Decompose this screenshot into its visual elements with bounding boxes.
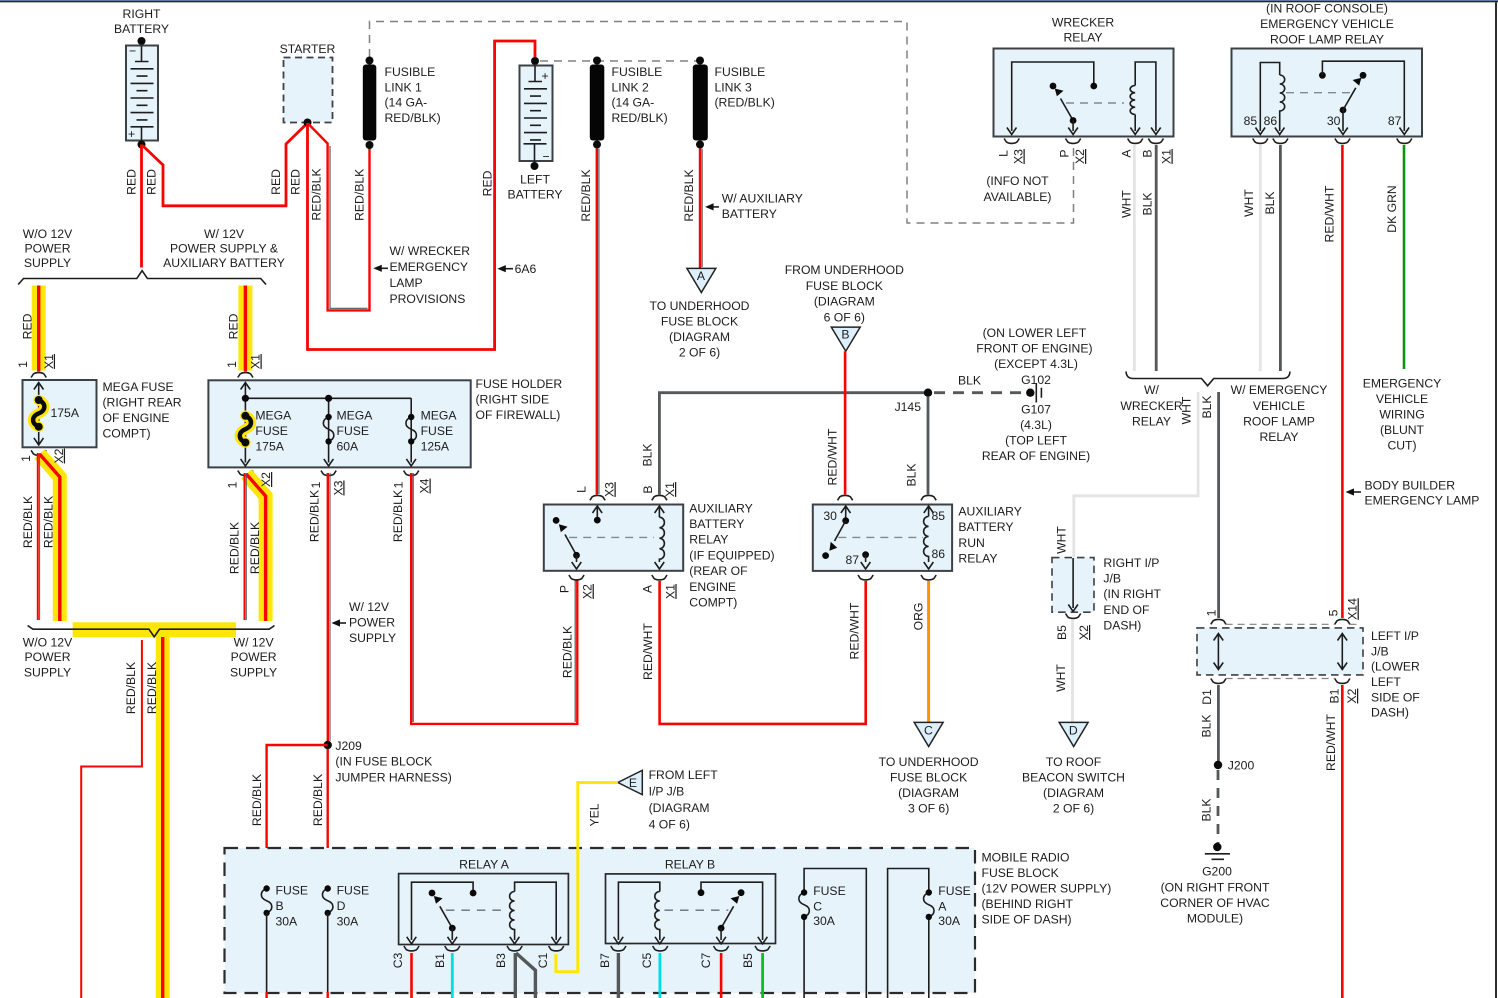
- svg-text:BATTERY: BATTERY: [689, 517, 744, 531]
- wire RED starter to left battery via 6A6: [308, 41, 536, 350]
- svg-text:(IN RIGHT: (IN RIGHT: [1103, 587, 1161, 601]
- wire RED/BLK fuse holder X4 to aux battery relay P: [411, 473, 577, 724]
- relay K4 AUXILIARY BATTERY RUN RELAY: [813, 495, 952, 571]
- svg-text:SIDE OF DASH): SIDE OF DASH): [982, 913, 1072, 927]
- svg-text:J/B: J/B: [1103, 572, 1121, 586]
- label FUSE HOLDER: [476, 377, 563, 422]
- svg-text:W/: W/: [1144, 383, 1160, 397]
- fusible link F2 FUSIBLE LINK 2: [590, 57, 668, 149]
- svg-text:SUPPLY: SUPPLY: [24, 256, 71, 270]
- svg-text:BLK: BLK: [958, 374, 981, 388]
- fuse block FUSE HOLDER right side of firewall: [208, 380, 470, 467]
- pin bump 30: [1335, 139, 1350, 144]
- svg-text:86: 86: [932, 547, 946, 561]
- off-page connector C TO UNDERHOOD FUSE BLOCK: [879, 722, 979, 815]
- svg-text:POWER SUPPLY &: POWER SUPPLY &: [170, 242, 278, 256]
- svg-text:BATTERY: BATTERY: [722, 207, 777, 221]
- svg-text:(12V POWER SUPPLY): (12V POWER SUPPLY): [982, 882, 1112, 896]
- svg-text:6 OF 6): 6 OF 6): [824, 310, 865, 324]
- svg-text:J/B: J/B: [1371, 644, 1389, 658]
- svg-text:(IN ROOF CONSOLE): (IN ROOF CONSOLE): [1266, 2, 1388, 16]
- svg-text:+: +: [542, 69, 549, 83]
- svg-text:RED: RED: [227, 313, 241, 339]
- wire BLK left I/P J/B D1 to J200: [1217, 685, 1220, 765]
- pin bump X1 fuse holder: [238, 373, 253, 378]
- svg-text:RED/BLK: RED/BLK: [41, 496, 55, 548]
- wire RED relay A C3: [410, 953, 413, 998]
- pin bump X4 fuse holder: [404, 471, 419, 476]
- svg-text:RELAY B: RELAY B: [665, 857, 715, 871]
- svg-text:L: L: [575, 486, 589, 493]
- fusible link F3 FUSIBLE LINK 3: [693, 57, 775, 149]
- svg-text:B5: B5: [1055, 625, 1069, 640]
- wire WHT wrecker relay A: [1133, 145, 1136, 371]
- svg-text:X2: X2: [52, 448, 66, 463]
- relay KA RELAY A: [399, 857, 569, 944]
- svg-text:CUT): CUT): [1387, 439, 1416, 453]
- svg-text:SUPPLY: SUPPLY: [24, 665, 71, 679]
- svg-text:30A: 30A: [813, 914, 836, 928]
- svg-text:2 OF 6): 2 OF 6): [679, 346, 720, 360]
- wire RED/WHT left I/P J/B B1 to bottom: [1341, 685, 1344, 998]
- svg-text:FUSIBLE: FUSIBLE: [385, 65, 436, 79]
- svg-text:125A: 125A: [421, 440, 450, 454]
- svg-text:FROM LEFT: FROM LEFT: [649, 768, 719, 782]
- svg-text:FROM UNDERHOOD: FROM UNDERHOOD: [785, 263, 904, 277]
- fuse FC FUSE C 30A: [799, 869, 866, 998]
- svg-text:WHT: WHT: [1120, 190, 1134, 218]
- callout BODY BUILDER EMERGENCY LAMP: [1346, 479, 1480, 508]
- svg-text:(IN FUSE BLOCK: (IN FUSE BLOCK: [335, 755, 432, 769]
- svg-text:A: A: [938, 900, 947, 914]
- svg-text:FUSE: FUSE: [337, 884, 370, 898]
- pin bump 86: [1273, 139, 1288, 144]
- svg-text:FUSE BLOCK: FUSE BLOCK: [806, 279, 883, 293]
- svg-text:RED/WHT: RED/WHT: [826, 428, 840, 485]
- wire GRN relay B B5: [761, 953, 764, 998]
- svg-text:1: 1: [225, 361, 239, 368]
- svg-text:BATTERY: BATTERY: [958, 520, 1013, 534]
- wire RED/BLK below brace highlighted to bottom: [156, 637, 170, 998]
- wire CYAN relay B C5: [659, 953, 662, 998]
- pin bump C1: [549, 946, 564, 951]
- pin bump C3: [404, 946, 419, 951]
- svg-text:RED/BLK: RED/BLK: [353, 169, 367, 221]
- pin bump 86: [921, 575, 936, 580]
- svg-text:(IF EQUIPPED): (IF EQUIPPED): [689, 548, 774, 562]
- svg-text:W/ EMERGENCY: W/ EMERGENCY: [1231, 383, 1328, 397]
- svg-text:ROOF LAMP: ROOF LAMP: [1243, 415, 1315, 429]
- relay K1 WRECKER RELAY: [994, 16, 1174, 137]
- node J209: [324, 739, 452, 784]
- wire RED right battery to starter: [143, 124, 307, 206]
- note INFO NOT AVAILABLE: [984, 174, 1052, 204]
- wire RED/BLK mega fuse X2 thin: [38, 453, 40, 620]
- pin bump 87: [1397, 139, 1412, 144]
- svg-text:COMPT): COMPT): [103, 427, 151, 441]
- svg-text:C: C: [924, 723, 933, 737]
- svg-text:C3: C3: [391, 952, 405, 968]
- wire RED/BLK J209 to fuse D: [327, 749, 329, 888]
- wire YEL triangle E to relay A C1: [556, 783, 618, 972]
- svg-text:RED/BLK: RED/BLK: [248, 522, 262, 574]
- svg-text:B: B: [641, 485, 655, 493]
- svg-text:X4: X4: [418, 478, 432, 493]
- svg-text:X2: X2: [259, 472, 273, 487]
- svg-text:W/ 12V: W/ 12V: [234, 635, 275, 649]
- brace wire group wrecker/EV: [1126, 372, 1290, 386]
- note EMERGENCY VEHICLE WIRING BLUNT CUT: [1363, 377, 1442, 453]
- svg-text:1: 1: [16, 361, 30, 368]
- svg-text:B: B: [276, 899, 284, 913]
- wire RED right battery to W/O-W/ brace: [140, 145, 143, 268]
- svg-text:(DIAGRAM: (DIAGRAM: [1043, 786, 1104, 800]
- svg-text:SUPPLY: SUPPLY: [349, 631, 396, 645]
- svg-text:MEGA FUSE: MEGA FUSE: [103, 380, 174, 394]
- svg-text:BLK: BLK: [1200, 395, 1214, 418]
- ground G102 G107: [976, 326, 1092, 463]
- svg-text:RED/BLK): RED/BLK): [385, 111, 441, 125]
- svg-text:EMERGENCY: EMERGENCY: [1363, 377, 1442, 391]
- svg-text:B1: B1: [433, 953, 447, 968]
- svg-text:JUMPER HARNESS): JUMPER HARNESS): [335, 770, 451, 784]
- wire BLK brace to left I/P J/B pin 1: [1217, 392, 1220, 618]
- svg-text:30: 30: [823, 509, 837, 523]
- svg-text:ROOF LAMP RELAY: ROOF LAMP RELAY: [1270, 33, 1384, 47]
- label W/ 12V POWER SUPPLY lower: [230, 635, 277, 679]
- svg-text:BLK: BLK: [1199, 714, 1213, 737]
- svg-text:SUPPLY: SUPPLY: [230, 665, 277, 679]
- svg-text:30A: 30A: [276, 915, 299, 929]
- svg-text:2 OF 6): 2 OF 6): [1053, 802, 1094, 816]
- wire BLK EV relay 86: [1279, 145, 1282, 371]
- svg-text:B1: B1: [1328, 688, 1342, 703]
- svg-text:6A6: 6A6: [515, 262, 537, 276]
- svg-text:DK GRN: DK GRN: [1385, 185, 1399, 232]
- svg-text:P: P: [557, 585, 571, 593]
- fuse FA FUSE A 30A: [888, 869, 971, 998]
- dashed net left battery to FL2 FL3: [540, 60, 700, 62]
- svg-text:X2: X2: [1073, 149, 1087, 164]
- svg-text:RED/BLK: RED/BLK: [391, 490, 405, 542]
- wire RED/WHT EV relay 30 to left I/P J/B pin 5: [1341, 145, 1344, 618]
- wire ORG run relay 86 to triangle C: [927, 581, 930, 722]
- svg-text:POWER: POWER: [24, 242, 70, 256]
- svg-text:175A: 175A: [51, 406, 80, 420]
- svg-text:(RIGHT REAR: (RIGHT REAR: [103, 396, 182, 410]
- svg-text:AVAILABLE): AVAILABLE): [984, 190, 1052, 204]
- pin bump P X2: [569, 575, 584, 580]
- off-page connector A TO UNDERHOOD FUSE BLOCK: [650, 268, 750, 359]
- svg-text:C5: C5: [640, 952, 654, 968]
- svg-text:RED/BLK: RED/BLK: [228, 522, 242, 574]
- svg-text:W/ WRECKER: W/ WRECKER: [390, 244, 471, 258]
- wire BLK relay B B7: [617, 953, 620, 998]
- svg-text:LEFT: LEFT: [520, 173, 550, 187]
- svg-text:C7: C7: [699, 952, 713, 968]
- svg-text:X1: X1: [42, 354, 56, 369]
- fuse MEGA FUSE 175A highlighted: [240, 409, 292, 454]
- svg-text:B: B: [1140, 149, 1154, 157]
- svg-text:END OF: END OF: [1103, 603, 1149, 617]
- pin bump B1: [445, 946, 460, 951]
- svg-text:(BEHIND RIGHT: (BEHIND RIGHT: [982, 897, 1074, 911]
- svg-text:EMERGENCY LAMP: EMERGENCY LAMP: [1365, 494, 1480, 508]
- svg-text:RED: RED: [21, 313, 35, 339]
- pin bump 85: [1253, 139, 1268, 144]
- svg-text:LEFT I/P: LEFT I/P: [1371, 629, 1419, 643]
- svg-text:B3: B3: [494, 953, 508, 968]
- svg-text:AUXILIARY: AUXILIARY: [958, 505, 1021, 519]
- svg-text:LINK 2: LINK 2: [612, 80, 649, 94]
- svg-text:A: A: [697, 269, 706, 283]
- wire RED/BLK FL2 to aux battery relay L: [597, 149, 599, 495]
- pin bump C7: [714, 946, 729, 951]
- svg-text:SIDE OF: SIDE OF: [1371, 690, 1420, 704]
- brace power supply options: [18, 271, 266, 285]
- wire WHT right I/P J/B to triangle D: [1071, 620, 1074, 722]
- svg-text:X1: X1: [663, 584, 677, 599]
- fuse MEGA FUSE 60A: [323, 409, 373, 454]
- wire RED/BLK FL3 to triangle A: [700, 149, 702, 269]
- svg-text:(ON LOWER LEFT: (ON LOWER LEFT: [983, 326, 1087, 340]
- svg-text:RIGHT: RIGHT: [123, 7, 161, 21]
- callout W/ WRECKER EMERGENCY LAMP PROVISIONS: [373, 244, 470, 306]
- svg-text:VEHICLE: VEHICLE: [1253, 399, 1305, 413]
- svg-text:RUN: RUN: [958, 536, 984, 550]
- svg-text:85: 85: [1244, 114, 1258, 128]
- fuse FB FUSE B 30A: [261, 884, 308, 998]
- callout W/ 12V POWER SUPPLY: [332, 600, 397, 645]
- svg-text:RED/BLK: RED/BLK: [579, 169, 593, 221]
- svg-text:RED/BLK: RED/BLK: [21, 496, 35, 548]
- svg-text:FUSIBLE: FUSIBLE: [715, 65, 766, 79]
- svg-text:FUSE: FUSE: [276, 884, 309, 898]
- junction block RIGHT I/P J/B: [1052, 556, 1162, 633]
- svg-text:60A: 60A: [337, 440, 360, 454]
- svg-text:B5: B5: [741, 953, 755, 968]
- label W/O 12V POWER SUPPLY lower: [23, 635, 73, 679]
- off-page connector B FROM UNDERHOOD FUSE BLOCK: [785, 263, 904, 351]
- svg-text:BLK: BLK: [1141, 192, 1155, 215]
- svg-text:(RED/BLK): (RED/BLK): [715, 96, 775, 110]
- svg-text:OF ENGINE: OF ENGINE: [103, 411, 170, 425]
- brace 12V power supply merge: [28, 626, 275, 637]
- svg-text:I/P J/B: I/P J/B: [649, 785, 685, 799]
- relay K3 AUXILIARY BATTERY RELAY: [544, 495, 683, 570]
- svg-text:TO ROOF: TO ROOF: [1046, 755, 1101, 769]
- wire BLK J145 to run relay 85: [927, 397, 930, 495]
- wire RED/BLK mega fuse X2 highlighted: [40, 454, 60, 621]
- svg-text:W/ 12V: W/ 12V: [204, 227, 245, 241]
- pin bump L X3: [1004, 139, 1019, 144]
- svg-text:G200: G200: [1202, 865, 1232, 879]
- label AUXILIARY BATTERY RUN RELAY: [958, 505, 1021, 566]
- svg-text:COMPT): COMPT): [689, 596, 737, 610]
- wire RED highlighted brace to fuse holder X1: [238, 286, 252, 372]
- svg-text:RED/BLK: RED/BLK: [145, 662, 159, 714]
- svg-text:RED/BLK: RED/BLK: [311, 774, 325, 826]
- wire WHT EV relay 85: [1259, 145, 1262, 371]
- svg-text:BATTERY: BATTERY: [114, 22, 169, 36]
- svg-text:C1: C1: [536, 952, 550, 968]
- svg-text:W/O 12V: W/O 12V: [23, 635, 73, 649]
- svg-text:WHT: WHT: [1055, 526, 1069, 554]
- svg-text:RELAY: RELAY: [1259, 430, 1298, 444]
- wire CYAN relay A B1: [451, 953, 454, 998]
- svg-text:(RIGHT SIDE: (RIGHT SIDE: [476, 392, 550, 406]
- svg-text:RED: RED: [125, 169, 139, 195]
- svg-text:87: 87: [846, 553, 860, 567]
- svg-text:BLK: BLK: [905, 463, 919, 486]
- svg-text:(14 GA-: (14 GA-: [612, 96, 655, 110]
- svg-text:X2: X2: [1077, 625, 1091, 640]
- wire RED/WHT triangle B to run relay 30: [844, 351, 847, 494]
- svg-text:(DIAGRAM: (DIAGRAM: [669, 330, 730, 344]
- svg-text:BLK: BLK: [1263, 191, 1277, 214]
- pin bump B5 X2: [1066, 614, 1081, 619]
- pin bump B X1: [1148, 139, 1163, 144]
- svg-text:RED/WHT: RED/WHT: [847, 602, 861, 659]
- svg-text:RED/BLK: RED/BLK: [682, 169, 696, 221]
- pin bump B3: [507, 946, 522, 951]
- fuse MEGA FUSE 125A: [406, 409, 457, 454]
- wire RED/WHT aux battery relay A to run relay 87: [660, 581, 866, 724]
- pin bump X3 fuse holder: [321, 471, 336, 476]
- wire RED/BLK fuse holder X2 highlighted: [246, 474, 265, 621]
- svg-text:WHT: WHT: [1179, 396, 1193, 424]
- pin bump X2 mega fuse: [31, 450, 46, 455]
- svg-text:STARTER: STARTER: [280, 42, 336, 56]
- svg-text:RELAY: RELAY: [1132, 415, 1171, 429]
- svg-text:G102: G102: [1021, 373, 1051, 387]
- svg-text:FUSE: FUSE: [813, 884, 846, 898]
- svg-text:WRECKER: WRECKER: [1120, 399, 1182, 413]
- svg-text:BLK: BLK: [1199, 798, 1213, 821]
- wire WHT brace to right I/P J/B: [1074, 392, 1198, 557]
- svg-text:DASH): DASH): [1371, 706, 1409, 720]
- svg-text:RED/BLK: RED/BLK: [124, 662, 138, 714]
- svg-text:C: C: [813, 900, 822, 914]
- off-page connector D TO ROOF BEACON SWITCH: [1022, 722, 1125, 815]
- svg-text:(EXCEPT 4.3L): (EXCEPT 4.3L): [994, 357, 1078, 371]
- svg-text:POWER: POWER: [24, 650, 70, 664]
- svg-text:POWER: POWER: [349, 615, 395, 629]
- svg-text:WHT: WHT: [1054, 664, 1068, 692]
- battery B1 RIGHT BATTERY: [114, 7, 169, 149]
- svg-text:BEACON SWITCH: BEACON SWITCH: [1022, 771, 1125, 785]
- svg-text:MEGA: MEGA: [337, 409, 374, 423]
- svg-text:(INFO NOT: (INFO NOT: [986, 174, 1049, 188]
- svg-text:X14: X14: [1346, 598, 1360, 620]
- page top bar: [0, 0, 1498, 2]
- svg-text:30A: 30A: [938, 914, 961, 928]
- pin bump B5: [755, 946, 770, 951]
- label W/ WRECKER RELAY: [1120, 383, 1182, 429]
- svg-text:WRECKER: WRECKER: [1052, 16, 1114, 30]
- svg-text:FUSE BLOCK: FUSE BLOCK: [982, 866, 1059, 880]
- svg-text:X3: X3: [331, 480, 345, 495]
- node J200: [1214, 759, 1255, 773]
- svg-text:FUSE: FUSE: [255, 424, 288, 438]
- svg-text:3 OF 6): 3 OF 6): [908, 802, 949, 816]
- svg-text:FUSE: FUSE: [337, 424, 370, 438]
- svg-text:RELAY A: RELAY A: [459, 857, 510, 871]
- ground G200: [1160, 843, 1270, 926]
- pin bump X2 fuse holder: [238, 471, 253, 476]
- svg-text:AUXILIARY BATTERY: AUXILIARY BATTERY: [163, 256, 285, 270]
- svg-text:G107: G107: [1021, 403, 1051, 417]
- svg-text:TO UNDERHOOD: TO UNDERHOOD: [650, 299, 750, 313]
- svg-text:J145: J145: [895, 400, 922, 414]
- svg-text:1: 1: [391, 481, 405, 488]
- svg-text:X3: X3: [1012, 149, 1026, 164]
- svg-text:TO UNDERHOOD: TO UNDERHOOD: [879, 755, 979, 769]
- svg-text:FUSIBLE: FUSIBLE: [612, 65, 663, 79]
- relay K2 EMERGENCY VEHICLE ROOF LAMP RELAY: [1232, 2, 1423, 137]
- svg-text:MEGA: MEGA: [255, 409, 292, 423]
- svg-text:MEGA: MEGA: [421, 409, 458, 423]
- pin bump B7: [611, 946, 626, 951]
- starter M1 STARTER: [280, 42, 336, 127]
- svg-text:AUXILIARY: AUXILIARY: [689, 501, 752, 515]
- svg-text:OF FIREWALL): OF FIREWALL): [476, 408, 561, 422]
- fuse FD FUSE D 30A: [322, 884, 369, 998]
- svg-text:FUSE BLOCK: FUSE BLOCK: [890, 771, 967, 785]
- svg-text:L: L: [996, 150, 1010, 157]
- svg-text:X2: X2: [581, 584, 595, 599]
- svg-text:4 OF 6): 4 OF 6): [649, 818, 690, 832]
- svg-text:EMERGENCY: EMERGENCY: [390, 260, 469, 274]
- svg-text:POWER: POWER: [231, 650, 277, 664]
- junction block LEFT I/P J/B: [1197, 619, 1420, 719]
- callout 6A6: [497, 262, 536, 276]
- svg-text:RED/BLK): RED/BLK): [612, 111, 668, 125]
- svg-text:ENGINE: ENGINE: [689, 580, 736, 594]
- wire RED highlighted brace to mega fuse X1: [32, 286, 46, 372]
- svg-text:A: A: [640, 584, 654, 593]
- svg-text:LINK 3: LINK 3: [715, 80, 752, 94]
- svg-text:J209: J209: [335, 739, 362, 753]
- svg-text:(BLUNT: (BLUNT: [1380, 423, 1425, 437]
- label W/ EMERGENCY VEHICLE ROOF LAMP RELAY: [1231, 383, 1328, 444]
- svg-text:X1: X1: [249, 354, 263, 369]
- svg-text:W/ AUXILIARY: W/ AUXILIARY: [722, 191, 803, 205]
- callout W/ AUXILIARY BATTERY: [705, 191, 803, 221]
- svg-text:(DIAGRAM: (DIAGRAM: [814, 295, 875, 309]
- svg-text:RED: RED: [480, 170, 494, 196]
- pin bump A: [1128, 139, 1143, 144]
- svg-text:RED: RED: [289, 169, 303, 195]
- node J145: [895, 389, 933, 415]
- svg-text:LINK 1: LINK 1: [385, 80, 422, 94]
- svg-text:B: B: [841, 328, 849, 342]
- svg-text:D: D: [1069, 723, 1078, 737]
- wire RED/BLK fuse holder X2 thin: [245, 473, 247, 620]
- svg-text:DASH): DASH): [1103, 619, 1141, 633]
- svg-text:87: 87: [1388, 114, 1402, 128]
- pin bump P X2: [1066, 139, 1081, 144]
- battery B2 LEFT BATTERY: [507, 57, 562, 202]
- svg-text:RED: RED: [269, 169, 283, 195]
- pin bump C5: [653, 946, 668, 951]
- relay KB RELAY B: [606, 857, 776, 944]
- svg-text:WHT: WHT: [1242, 189, 1256, 217]
- wire RED/BLK J209 branch to fuse B: [267, 745, 328, 888]
- wire RED/BLK below brace thin to bottom left: [81, 640, 142, 998]
- fusible link F1 FUSIBLE LINK 1: [363, 57, 441, 150]
- wire BLK wrecker relay B: [1155, 145, 1158, 371]
